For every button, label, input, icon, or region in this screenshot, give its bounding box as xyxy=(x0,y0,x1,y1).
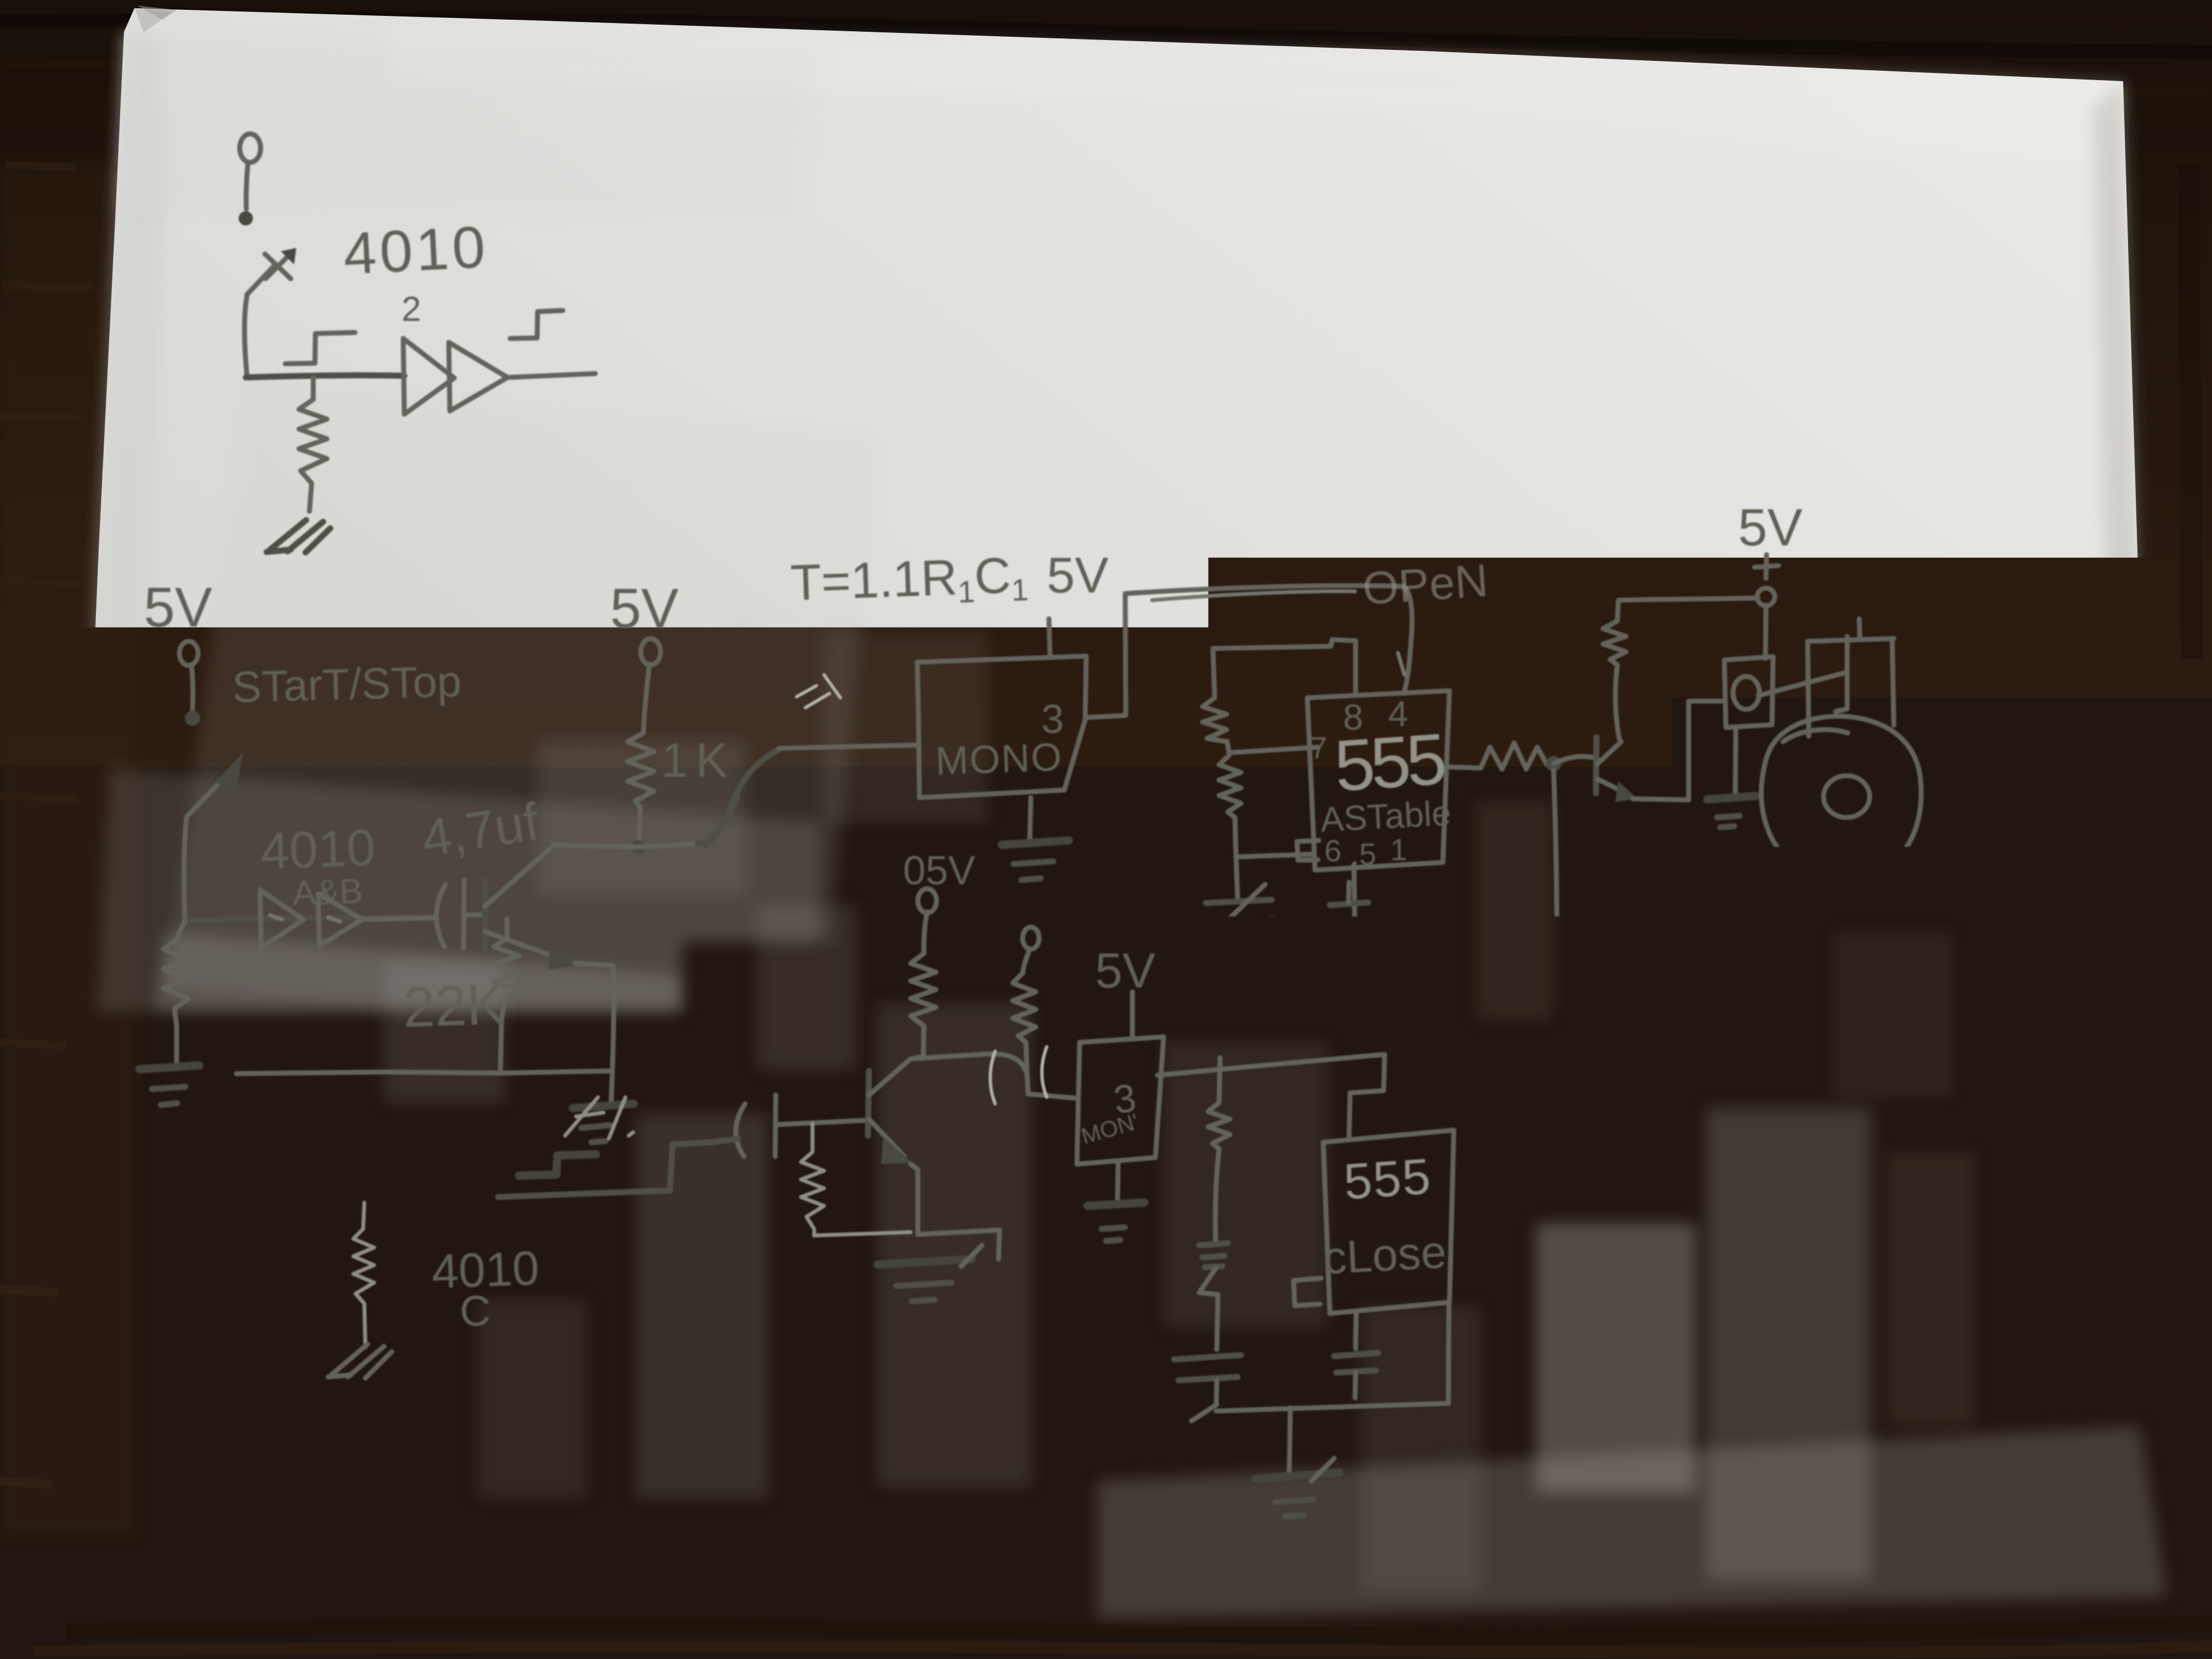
wire 555B right vertical loop xyxy=(1216,1304,1449,1411)
wire Q3 emitter to relay xyxy=(1633,701,1724,800)
capacitor C2 xyxy=(712,1095,867,1156)
wire SW2 to rail xyxy=(184,819,187,919)
wire T1 to switch dot xyxy=(246,163,248,209)
capacitor C5 xyxy=(1174,1355,1241,1403)
wire MONO2 bottom to ground xyxy=(1118,1164,1118,1199)
ground GND4 (MONO1) xyxy=(1002,840,1069,880)
resistor R2 xyxy=(163,921,189,1063)
wire R8 to 555B xyxy=(1457,1169,1558,1173)
wire R6 to pin 6 and bracket xyxy=(1236,840,1319,860)
label 5V (above MONO1) xyxy=(1047,548,1109,603)
IC 555A box xyxy=(1307,691,1449,870)
resistor R5 xyxy=(1203,698,1229,753)
capacitor C1 xyxy=(436,880,485,948)
label ASTable xyxy=(1319,793,1452,839)
IC MONO1 box xyxy=(917,656,1086,798)
contact assembly xyxy=(1808,619,1894,736)
resistor R9 xyxy=(1603,600,1626,740)
svg-text:2: 2 xyxy=(402,289,421,329)
svg-text:555: 555 xyxy=(1332,718,1447,806)
label 2 (buffer pin) xyxy=(402,289,421,329)
label MONO (small) xyxy=(1079,1108,1142,1149)
plus sign xyxy=(1754,555,1779,578)
small hatch marks xyxy=(1199,1243,1228,1267)
resistor R3 22K xyxy=(494,919,519,1073)
wire 5V to MONO1 top xyxy=(1049,619,1050,657)
wire Q2 emitter to ground xyxy=(911,1164,1000,1259)
wire buffer B to cap C1 xyxy=(362,918,435,919)
terminal T1 top-left xyxy=(240,134,261,162)
svg-text:5V: 5V xyxy=(1047,548,1109,603)
junction dot switch SW1 xyxy=(239,211,253,225)
label 1K xyxy=(661,733,736,787)
label 8 xyxy=(1343,697,1363,737)
wire MONO2 output to 555B xyxy=(1158,1054,1385,1138)
svg-text:4010: 4010 xyxy=(342,213,490,287)
label 4010 A&B xyxy=(259,819,376,913)
label 555 (astable, light) xyxy=(1332,718,1447,806)
ground GND3 (Q1 emitter) xyxy=(573,1073,634,1142)
wire input rail to cap xyxy=(185,917,433,921)
ground GND2 xyxy=(139,1065,199,1105)
switch SW1 arm with arrow xyxy=(247,248,296,295)
wire 555B pin5 down to cap C6 xyxy=(1356,1313,1356,1348)
label 7 xyxy=(1310,730,1327,765)
wire T2 down xyxy=(191,664,193,709)
wire rect left down to R5 xyxy=(1213,648,1215,698)
junction dot node B2 xyxy=(1546,756,1561,771)
label 5V (relay rail) xyxy=(1738,498,1802,557)
svg-text:OPeN: OPeN xyxy=(1361,554,1490,614)
svg-text:1: 1 xyxy=(1390,832,1407,867)
terminal T3 xyxy=(641,639,661,665)
wire relay to contact xyxy=(1758,673,1846,696)
ground GND1 xyxy=(267,520,330,552)
relay bottom to ground xyxy=(1735,727,1736,795)
wire pin6 node down to cap C3 xyxy=(1236,857,1238,900)
svg-text:A&B: A&B xyxy=(292,871,363,913)
pulse symbol S4 xyxy=(519,1154,596,1176)
wire R5 to pin 7 xyxy=(1229,747,1318,753)
faint scribble F xyxy=(565,1097,633,1138)
label 555 (close) xyxy=(1342,1148,1433,1210)
wire R3 bottom loop xyxy=(236,1071,612,1074)
pulse symbol in xyxy=(285,332,355,364)
ground GND8 (Q2) xyxy=(878,1245,982,1301)
wire faint bottom xyxy=(814,1232,911,1235)
buffer U1a triangle xyxy=(403,338,454,414)
wire T4 rail left to R9 xyxy=(1618,598,1758,600)
label 5V (mid) xyxy=(903,848,975,893)
ground GND5 (555A) xyxy=(1255,949,1327,1022)
wire T3 to R4 xyxy=(644,664,650,733)
label 22K xyxy=(402,973,506,1040)
label MONO xyxy=(935,735,1064,783)
pulse symbol S3 xyxy=(323,1148,397,1181)
wire R14 down zig xyxy=(1199,1268,1218,1350)
wire R12 to Q2 collector xyxy=(911,1057,923,1059)
faint mark left edge xyxy=(93,1052,142,1059)
svg-text:22K: 22K xyxy=(402,973,506,1040)
label 4010 C xyxy=(431,1240,540,1335)
svg-text:C: C xyxy=(460,1286,490,1335)
transistor Q2 xyxy=(868,1059,913,1164)
label 5V (1K rail) xyxy=(610,577,679,640)
wire Q1 collector to node B1 xyxy=(554,845,638,847)
svg-text:5V: 5V xyxy=(144,576,212,639)
switch SW2 arm with arrow xyxy=(187,753,243,817)
svg-text:4,7: 4,7 xyxy=(724,1028,805,1097)
svg-text:555: 555 xyxy=(1342,1148,1433,1210)
wire SW1 down xyxy=(245,296,247,375)
svg-text:STarT/STop: STarT/STop xyxy=(232,657,462,712)
wire T6 down xyxy=(1023,949,1030,973)
svg-text:5V: 5V xyxy=(1738,498,1802,557)
resistor R14 (555B left) xyxy=(1208,1058,1230,1244)
svg-text:ASTable: ASTable xyxy=(1319,793,1452,839)
terminal T6 (small circle) xyxy=(1023,927,1039,949)
svg-text:05V: 05V xyxy=(903,848,975,893)
wire bottom rail to 4010C xyxy=(236,1199,445,1204)
wire top rect to pin 8 xyxy=(1213,640,1356,695)
label OPEN (faint) xyxy=(1361,554,1490,614)
junction dot SW2 xyxy=(185,710,200,726)
IC MONO2 box xyxy=(1077,1037,1164,1164)
wire MONO1 output pin3 to top rail xyxy=(1085,585,1412,718)
resistor R7 (output, zigzag) xyxy=(1481,743,1547,769)
label STarT/STop xyxy=(232,657,462,712)
ground GND9 (MONO2) xyxy=(1087,1203,1144,1241)
transistor Q3 xyxy=(1596,737,1637,802)
wire Q1 emitter down xyxy=(575,963,614,1073)
label 5V (start/stop) xyxy=(144,576,212,639)
wire bottom rail to ground xyxy=(1289,1408,1290,1471)
resistor R4 1K xyxy=(628,733,654,844)
label 4 xyxy=(1388,693,1408,734)
wire buffer output xyxy=(507,374,595,377)
capacitor C3 with slash xyxy=(1198,884,1274,949)
resistor R10 (faint) xyxy=(353,1203,374,1347)
wire node to buffer input xyxy=(246,375,404,377)
label 4010 (top) xyxy=(342,213,490,287)
svg-text:6: 6 xyxy=(1324,833,1341,868)
ground GND6 (relay) xyxy=(1707,796,1756,827)
resistor R12 xyxy=(911,953,936,1057)
label close xyxy=(1322,1226,1448,1284)
label 4.7 (second cap) xyxy=(724,1028,805,1097)
svg-text:1K: 1K xyxy=(661,733,736,787)
ground GND7 (slashes) xyxy=(328,1344,392,1378)
faint scribble 30K xyxy=(797,675,840,708)
wire T4 down to relay xyxy=(1765,606,1766,658)
wire node B2 down (long vertical) xyxy=(1554,770,1557,955)
pulse symbol out xyxy=(510,311,563,338)
wire 555A pin3 output xyxy=(1449,767,1481,768)
faint print bleed-through from reverse side xyxy=(384,631,1975,1591)
IC 555B box close xyxy=(1323,1130,1454,1313)
capacitor C6 xyxy=(1334,1353,1378,1398)
wire 5V to MONO2 xyxy=(1130,992,1135,1036)
junction dot node B1 xyxy=(631,840,645,854)
ground GND10 (555B) xyxy=(1255,1458,1340,1516)
terminal T4 xyxy=(1757,588,1775,606)
buffer U1c triangle A xyxy=(260,890,303,948)
buffer U1b triangle xyxy=(449,342,507,411)
svg-text:7: 7 xyxy=(1310,730,1327,765)
svg-text:MONO: MONO xyxy=(935,735,1064,783)
motor M1 xyxy=(1761,716,1921,877)
buffer U1e triangle 4010C xyxy=(445,1164,498,1224)
wire T5 down xyxy=(924,912,927,953)
wire node B2 to Q3 base xyxy=(1554,757,1595,764)
label 4.7uf xyxy=(418,792,543,868)
wire 4010C output xyxy=(498,1142,712,1197)
wire node B1 to MONO1 (heavy stroke) xyxy=(638,745,917,847)
resistor R11 (mid faint) xyxy=(801,1124,824,1235)
transistor Q1 xyxy=(485,845,577,970)
svg-text:cLose: cLose xyxy=(1322,1226,1448,1284)
labels 6 5 1 xyxy=(1324,832,1407,871)
resistor R13 xyxy=(1013,973,1036,1074)
resistor R8 xyxy=(1544,955,1569,1169)
curve marks xyxy=(990,1047,1047,1104)
svg-text:10K: 10K xyxy=(833,950,906,1000)
wire pin5 down xyxy=(1354,865,1355,947)
stub wire left xyxy=(290,1038,311,1063)
wire bottom rail 555B xyxy=(1192,1404,1217,1421)
bracket pin (555B) xyxy=(1294,1278,1321,1306)
label 5V (above MONO2) xyxy=(1095,944,1155,998)
terminal T2 start/stop xyxy=(179,641,198,665)
resistor R1 xyxy=(299,377,327,511)
resistor R6 xyxy=(1219,755,1241,857)
svg-text:5V: 5V xyxy=(610,577,679,640)
relay K1 box xyxy=(1724,657,1773,727)
svg-text:5V: 5V xyxy=(1095,944,1155,998)
terminal T5 xyxy=(918,889,936,913)
wire Q2 collector to MONO2 xyxy=(911,1054,1077,1098)
label 3 (MONO2) xyxy=(1111,1076,1139,1122)
wire MONO1 bottom to ground xyxy=(1030,798,1031,840)
wire bottom rail 555A xyxy=(1236,947,1355,949)
buffer U1d triangle B xyxy=(318,894,362,946)
corner fold top-left xyxy=(135,9,171,33)
relay coil circle xyxy=(1733,676,1759,709)
label 10K (faint) xyxy=(833,950,906,1000)
label T=1.1R1C1 xyxy=(789,547,1029,615)
label 3 (MONO1 pin) xyxy=(1041,696,1064,742)
creases and shading xyxy=(55,614,1810,1635)
wire rail down (left long vertical) xyxy=(235,921,236,1204)
capacitor C4 xyxy=(1330,882,1368,924)
